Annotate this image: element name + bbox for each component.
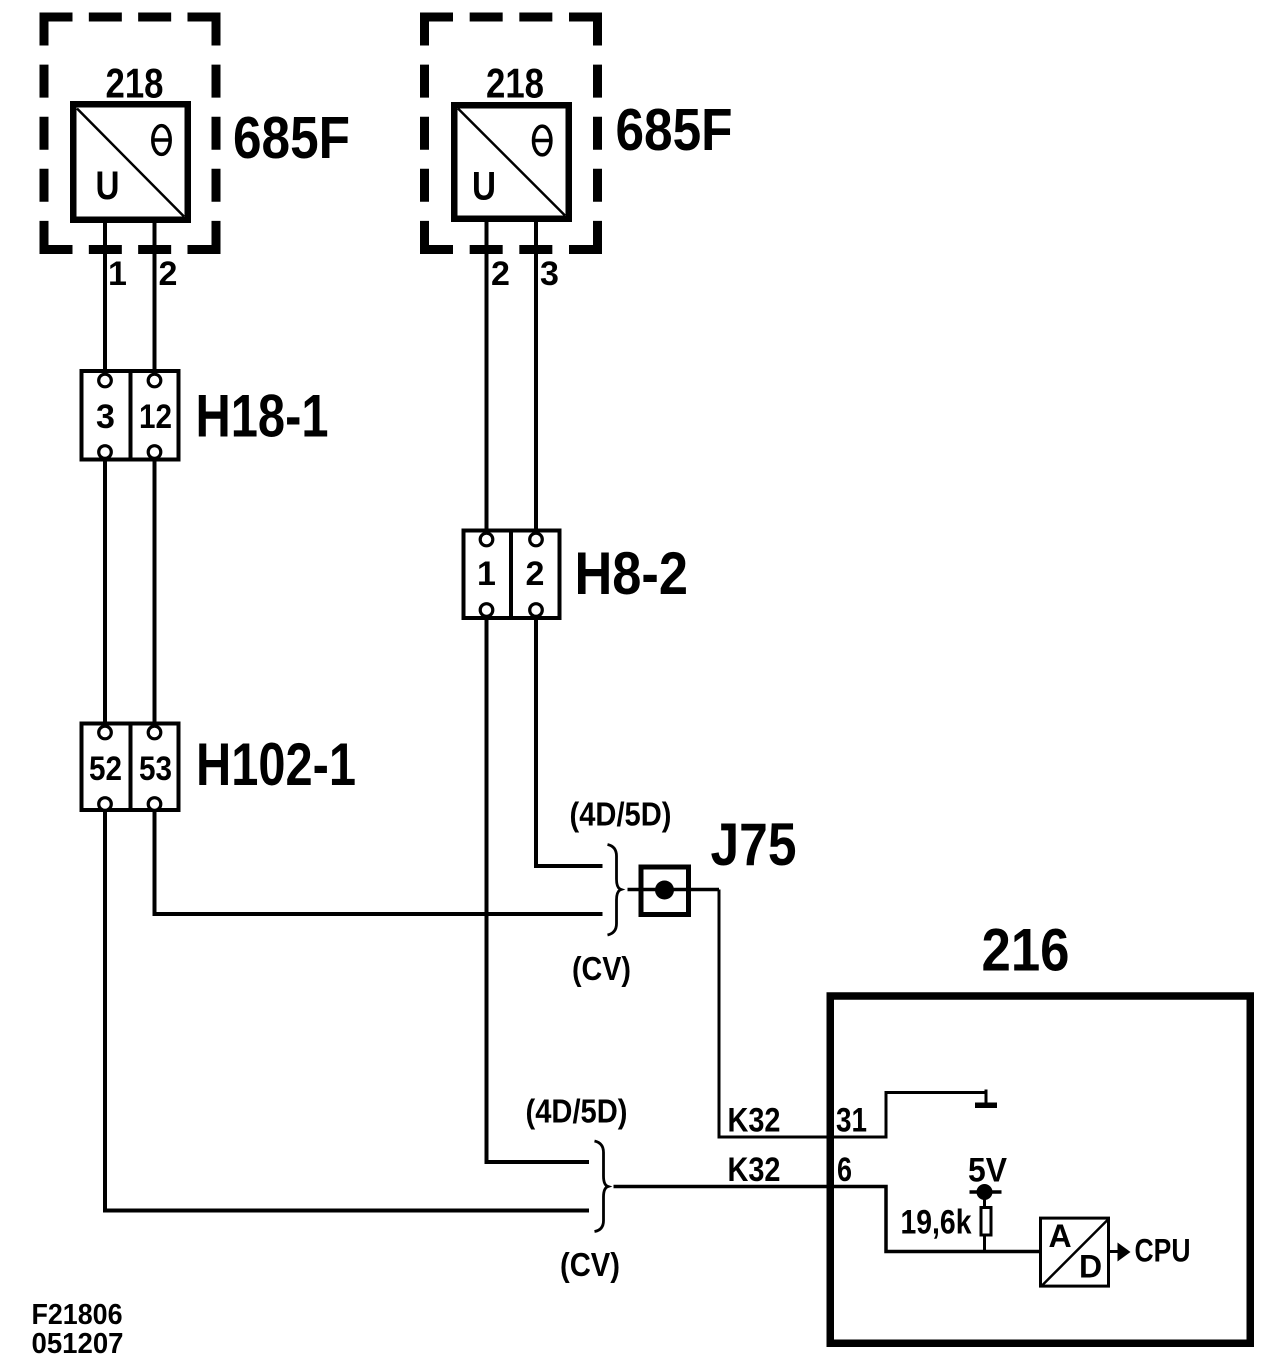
svg-text:K32: K32 bbox=[728, 1151, 781, 1189]
svg-text:1: 1 bbox=[108, 255, 127, 293]
svg-text:U: U bbox=[96, 164, 120, 208]
svg-text:685F: 685F bbox=[233, 105, 350, 171]
svg-text:685F: 685F bbox=[616, 97, 733, 163]
svg-text:(CV): (CV) bbox=[560, 1246, 620, 1283]
svg-text:(CV): (CV) bbox=[572, 950, 631, 987]
svg-text:(4D/5D): (4D/5D) bbox=[526, 1093, 628, 1130]
svg-text:1: 1 bbox=[477, 555, 496, 593]
svg-text:H102-1: H102-1 bbox=[196, 731, 356, 798]
svg-text:H8-2: H8-2 bbox=[575, 540, 689, 607]
svg-text:31: 31 bbox=[836, 1102, 867, 1140]
svg-text:K32: K32 bbox=[728, 1102, 781, 1140]
svg-text:3: 3 bbox=[96, 398, 115, 436]
svg-text:19,6k: 19,6k bbox=[901, 1204, 972, 1242]
svg-text:F21806: F21806 bbox=[32, 1299, 123, 1331]
svg-text:216: 216 bbox=[982, 917, 1070, 984]
svg-text:H18-1: H18-1 bbox=[196, 383, 329, 450]
svg-text:A: A bbox=[1048, 1218, 1071, 1254]
svg-text:D: D bbox=[1079, 1249, 1102, 1285]
svg-text:U: U bbox=[472, 165, 496, 209]
svg-text:3: 3 bbox=[540, 255, 559, 293]
svg-text:(4D/5D): (4D/5D) bbox=[570, 796, 672, 833]
svg-text:5V: 5V bbox=[968, 1152, 1007, 1190]
svg-text:12: 12 bbox=[139, 398, 172, 436]
svg-text:2: 2 bbox=[159, 255, 178, 293]
svg-text:051207: 051207 bbox=[32, 1328, 124, 1360]
svg-text:218: 218 bbox=[106, 59, 164, 106]
svg-text:218: 218 bbox=[486, 59, 544, 106]
svg-text:CPU: CPU bbox=[1135, 1233, 1191, 1269]
svg-text:52: 52 bbox=[89, 750, 122, 788]
svg-text:2: 2 bbox=[491, 255, 510, 293]
svg-text:6: 6 bbox=[837, 1151, 852, 1189]
svg-text:2: 2 bbox=[526, 555, 545, 593]
svg-text:J75: J75 bbox=[711, 811, 797, 878]
svg-text:53: 53 bbox=[139, 750, 172, 788]
